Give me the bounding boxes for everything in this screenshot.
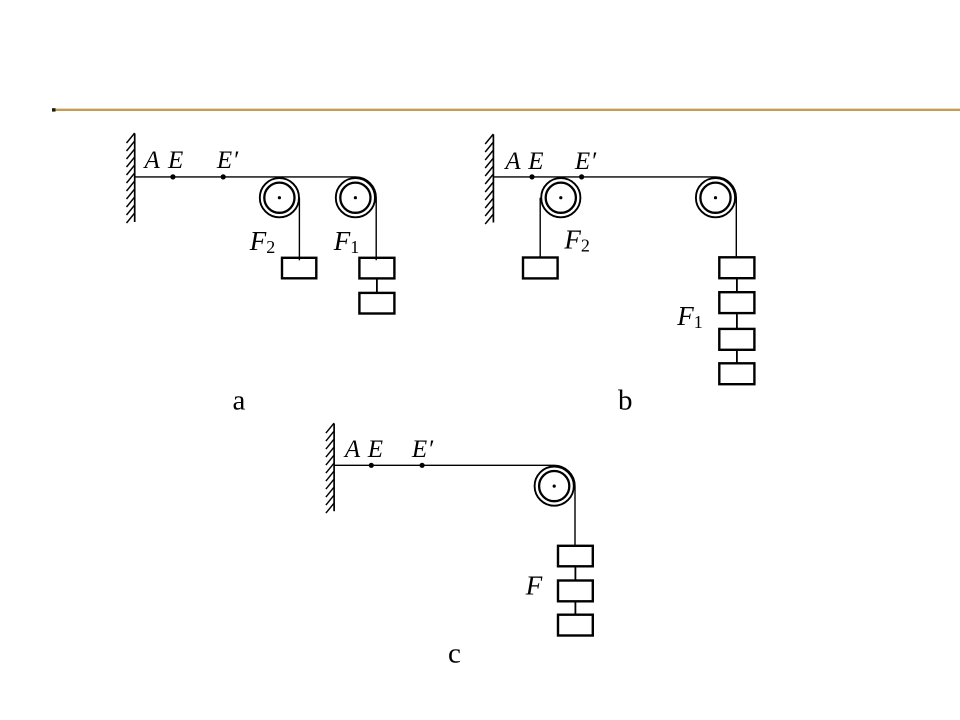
- wall line (c): [333, 424, 335, 512]
- node E (a): [170, 174, 175, 179]
- rope hanging from left side of pulley B1: [539, 198, 541, 259]
- pulley C axle dot: [553, 485, 556, 488]
- rope from wall over pulley C, down right side: [334, 465, 575, 546]
- node E' (c): [420, 463, 425, 468]
- svg-text:c: c: [448, 638, 461, 670]
- svg-text:F: F: [525, 570, 543, 600]
- connector between weights (a): [376, 278, 378, 293]
- weight 2 under pulley C: [558, 581, 593, 602]
- pulley A1 outer rim: [260, 178, 299, 217]
- weight under pulley B1: [523, 258, 558, 279]
- svg-text:E′: E′: [574, 148, 597, 175]
- connector weights 2-3 (b): [736, 313, 738, 329]
- pulley A2 outer rim: [336, 178, 375, 217]
- rope from wall over pulleys, down right side of pulley B2: [493, 177, 736, 258]
- rope from wall over pulleys, down right side of pulley A2: [135, 177, 377, 260]
- pulley B1 outer rim: [541, 178, 580, 217]
- wall line (b): [492, 135, 494, 223]
- wall hatching (a): [127, 133, 135, 223]
- weight 3 under pulley C: [558, 615, 593, 636]
- pulley A2 inner wheel: [340, 183, 370, 213]
- svg-text:E: E: [167, 147, 183, 174]
- pulley B2 inner wheel: [700, 183, 730, 213]
- weight 4 under pulley B2: [719, 363, 754, 384]
- svg-text:E: E: [367, 436, 383, 463]
- pulley C outer rim: [535, 467, 574, 506]
- svg-text:b: b: [618, 385, 633, 417]
- node E (c): [369, 463, 374, 468]
- svg-text:a: a: [233, 385, 246, 417]
- pulley B1 axle dot: [559, 196, 562, 199]
- connector weights 3-4 (b): [736, 350, 738, 364]
- wall hatching (c): [326, 423, 334, 513]
- svg-text:A: A: [503, 148, 521, 175]
- gold divider line: [53, 109, 960, 111]
- wall hatching (b): [485, 134, 493, 224]
- pulley C inner wheel: [539, 471, 569, 501]
- weight 2 under pulley B2: [719, 292, 754, 313]
- weight 3 under pulley B2: [719, 329, 754, 350]
- weight under pulley A1: [282, 258, 316, 279]
- pulley A2 axle dot: [354, 196, 357, 199]
- weight 1 under pulley B2: [719, 257, 754, 278]
- weight 1 under pulley A2: [359, 258, 394, 279]
- node E (b): [529, 174, 534, 179]
- svg-text:E′: E′: [411, 436, 434, 463]
- weight 2 under pulley A2: [359, 293, 394, 314]
- weight 1 under pulley C: [558, 546, 593, 567]
- node E' (b): [579, 174, 584, 179]
- pulley A1 axle dot: [278, 196, 281, 199]
- divider left black tick: [52, 108, 56, 111]
- svg-text:E: E: [527, 148, 543, 175]
- connector weights 2-3 (c): [574, 601, 576, 614]
- svg-text:E′: E′: [216, 147, 239, 174]
- node E' (a): [221, 174, 226, 179]
- pulley A1 inner wheel: [264, 183, 294, 213]
- pulley B2 outer rim: [696, 178, 735, 217]
- connector weights 1-2 (b): [736, 278, 738, 292]
- pulley B2 axle dot: [714, 196, 717, 199]
- rope hanging from pulley A1: [298, 198, 300, 261]
- pulley B1 inner wheel: [546, 183, 576, 213]
- wall line (a): [134, 134, 136, 223]
- connector weights 1-2 (c): [574, 566, 576, 580]
- svg-text:A: A: [143, 147, 161, 174]
- svg-text:A: A: [343, 436, 361, 463]
